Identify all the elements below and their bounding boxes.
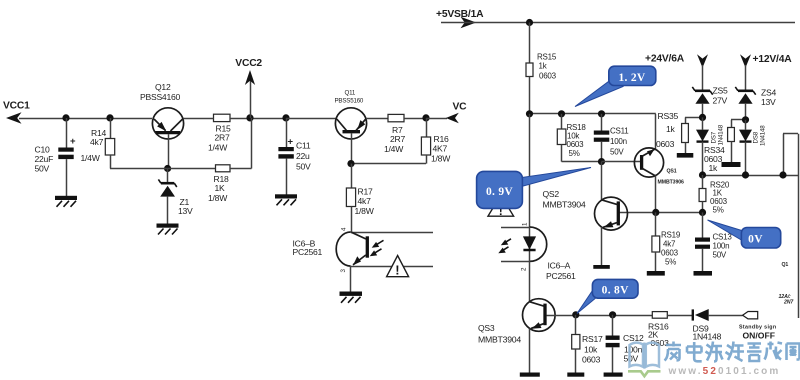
- svg-text:4K7: 4K7: [433, 143, 448, 153]
- node ZS4/DS8: [742, 116, 749, 123]
- svg-text:CS13: CS13: [713, 233, 733, 242]
- svg-text:1N4148: 1N4148: [693, 332, 722, 342]
- wire +5VSB rail: [441, 22, 795, 24]
- svg-text:CS11: CS11: [610, 127, 629, 136]
- svg-text:1. 2V: 1. 2V: [618, 72, 645, 84]
- wire from Q1 drain: [783, 134, 799, 319]
- net entry +12V/4A: [740, 54, 792, 90]
- svg-text:1/4W: 1/4W: [384, 144, 404, 154]
- svg-text:RS17: RS17: [582, 334, 603, 344]
- connector Standby sign ON/OFF: [739, 312, 776, 341]
- svg-text:!: !: [395, 263, 399, 278]
- svg-text:MMBT3904: MMBT3904: [478, 335, 521, 345]
- svg-text:1/4W: 1/4W: [208, 143, 228, 153]
- node bus DS8: [742, 171, 749, 178]
- svg-text:IC6–A: IC6–A: [548, 261, 571, 271]
- capacitor C10: [35, 118, 77, 196]
- ground (C11): [275, 194, 297, 205]
- svg-text:50V: 50V: [35, 164, 50, 174]
- node bus RS15: [526, 110, 533, 117]
- node QS1 collector / RS19: [652, 209, 659, 216]
- transistor QS3 MMBT3904: [478, 299, 555, 373]
- wire RS15 node down to IC6-A: [529, 114, 531, 227]
- resistor R16: [351, 118, 451, 164]
- svg-text:RS35: RS35: [658, 111, 679, 121]
- resistor R17: [346, 164, 374, 232]
- ground bar (RS19): [647, 271, 665, 276]
- node Q11 base junction: [347, 160, 354, 167]
- node 0V (RS20/CS13): [699, 209, 706, 216]
- ground (C10): [55, 196, 77, 207]
- transistor Q11 PBSS5160: [335, 90, 367, 164]
- resistor RS19: [652, 212, 681, 271]
- svg-text:0. 9V: 0. 9V: [486, 186, 513, 198]
- resistor RS34: [704, 120, 746, 174]
- svg-text:1k: 1k: [666, 124, 676, 134]
- svg-text:27V: 27V: [713, 96, 728, 106]
- svg-text:ON/OFF: ON/OFF: [743, 331, 775, 341]
- capacitor CS11: [594, 114, 629, 162]
- ground (IC6-B pin3): [340, 292, 363, 303]
- svg-text:+5VSB/1A: +5VSB/1A: [436, 9, 484, 20]
- diode DS8 1N4148: [739, 120, 766, 175]
- svg-text:0603: 0603: [539, 72, 557, 81]
- resistor RS17: [572, 315, 603, 373]
- wire R14 to Q12 base: [110, 168, 216, 170]
- svg-text:CS12: CS12: [623, 333, 644, 343]
- wire 1.2V bus: [530, 113, 656, 115]
- svg-text:100n: 100n: [610, 137, 627, 146]
- svg-text:1/8W: 1/8W: [208, 193, 228, 203]
- wire QS2 base line: [620, 212, 703, 214]
- svg-text:VCC1: VCC1: [3, 101, 30, 112]
- resistor R15: [183, 114, 286, 153]
- svg-text:VCC2: VCC2: [235, 58, 262, 69]
- zener Z1 13V: [158, 169, 193, 224]
- node RS17: [572, 311, 579, 318]
- node 0.9V: [598, 158, 605, 165]
- svg-text:0603: 0603: [582, 355, 601, 365]
- svg-text:+12V/4A: +12V/4A: [753, 54, 793, 65]
- svg-text:2R7: 2R7: [215, 132, 230, 142]
- svg-text:QS1: QS1: [667, 169, 677, 175]
- transistor QS1 MMBT3906: [634, 148, 684, 213]
- svg-text:50V: 50V: [713, 251, 727, 260]
- wire VCC1 rail: [19, 118, 152, 120]
- svg-text:1k: 1k: [709, 163, 719, 173]
- svg-text:50V: 50V: [296, 162, 311, 172]
- resistor R7: [366, 114, 426, 154]
- svg-text:PC2561: PC2561: [546, 271, 576, 281]
- svg-text:RS15: RS15: [537, 53, 557, 62]
- svg-text:1/4W: 1/4W: [81, 153, 101, 163]
- svg-text:C10: C10: [35, 145, 50, 155]
- svg-text:50V: 50V: [624, 354, 639, 364]
- wire node to QS1 base: [602, 161, 641, 163]
- callout 1.2V: [575, 66, 656, 106]
- svg-text:1k: 1k: [539, 62, 548, 71]
- svg-text:1N4148: 1N4148: [759, 125, 766, 146]
- node bus Q1: [779, 171, 786, 178]
- transistor QS2 MMBT3904: [543, 189, 628, 265]
- svg-text:+: +: [70, 136, 76, 147]
- ground bar (QS2): [593, 265, 610, 269]
- resistor RS18: [557, 114, 586, 162]
- warning triangle (IC6-B): [387, 256, 409, 278]
- svg-text:5%: 5%: [569, 149, 580, 158]
- svg-text:Q11: Q11: [345, 90, 356, 97]
- svg-text:MMBT3906: MMBT3906: [658, 180, 685, 186]
- node VCC2 junction: [246, 114, 253, 121]
- watermark text (stylized): [665, 342, 800, 362]
- diode DS9 1N4148: [693, 309, 743, 342]
- ground bar (CS12): [604, 373, 623, 377]
- svg-text:0603: 0603: [567, 140, 585, 149]
- svg-text:13V: 13V: [761, 97, 776, 107]
- ground bar (RS17): [567, 373, 584, 377]
- svg-text:C11: C11: [296, 141, 311, 151]
- watermark book icon: [628, 343, 661, 377]
- warning triangle (IC6-A, behind callout): [488, 195, 514, 218]
- svg-text:Q12: Q12: [155, 82, 171, 92]
- svg-text:0V: 0V: [748, 234, 763, 246]
- svg-text:1K: 1K: [215, 183, 226, 193]
- zener ZS4 13V: [735, 87, 776, 120]
- svg-text:ZS5: ZS5: [713, 86, 728, 96]
- svg-text:PC2561: PC2561: [293, 247, 323, 257]
- svg-text:RS19: RS19: [661, 231, 681, 240]
- svg-text:Q1: Q1: [782, 262, 789, 268]
- ground bar (RS34): [722, 162, 741, 167]
- callout 0.8V: [577, 279, 638, 313]
- svg-text:VC: VC: [453, 102, 468, 113]
- svg-text:13V: 13V: [178, 206, 193, 216]
- resistor RS16: [648, 312, 694, 348]
- svg-text:22u: 22u: [296, 151, 310, 161]
- svg-text:+: +: [288, 137, 294, 148]
- svg-text:0603: 0603: [656, 139, 675, 149]
- callout 0V: [708, 220, 781, 248]
- net label VC: [426, 102, 467, 124]
- resistor RS35: [656, 111, 703, 153]
- svg-text:0603: 0603: [661, 249, 679, 258]
- svg-text:4k7: 4k7: [663, 240, 676, 249]
- svg-text:MMBT3904: MMBT3904: [543, 200, 586, 210]
- node bus DS7: [699, 171, 706, 178]
- svg-text:50V: 50V: [610, 147, 624, 156]
- net label VCC2: [235, 58, 262, 118]
- transistor Q12 PBSS4160: [140, 82, 184, 169]
- svg-text:PBSS4160: PBSS4160: [140, 92, 181, 102]
- svg-text:www.520101.com: www.520101.com: [668, 366, 781, 377]
- node CS12: [609, 311, 616, 318]
- node RS15 top: [526, 19, 533, 26]
- svg-text:5%: 5%: [665, 258, 676, 267]
- optocoupler IC6-A PC2561 (LED): [498, 222, 576, 302]
- wire node down to QS2 collector: [601, 162, 603, 200]
- node R14 junction: [106, 114, 113, 121]
- resistor RS15: [526, 23, 557, 114]
- resistor R18: [208, 118, 252, 203]
- svg-text:4k7: 4k7: [90, 137, 104, 147]
- svg-text:10k: 10k: [584, 345, 598, 355]
- svg-text:5%: 5%: [713, 206, 724, 215]
- svg-text:1/8W: 1/8W: [355, 206, 375, 216]
- node C10 junction: [62, 114, 69, 121]
- label 12A / 2N7 fragment: [779, 294, 795, 306]
- resistor R14: [81, 118, 115, 169]
- callout 0.9V: [477, 168, 591, 209]
- svg-text:QS2: QS2: [543, 189, 560, 199]
- capacitor CS13: [695, 212, 732, 271]
- optocoupler IC6-B PC2561 (phototransistor): [293, 227, 434, 292]
- ground (Z1): [157, 224, 179, 235]
- wire RS18 bottom to node: [562, 161, 602, 163]
- svg-text:PBSS5160: PBSS5160: [335, 98, 364, 105]
- node Q12 base junction: [164, 165, 171, 172]
- ground bar (RS35): [677, 153, 694, 158]
- resistor RS20: [699, 175, 730, 215]
- svg-text:1N4148: 1N4148: [717, 124, 724, 145]
- svg-text:2N7: 2N7: [783, 300, 794, 306]
- net label VCC1: [3, 101, 30, 124]
- svg-text:4k7: 4k7: [358, 196, 372, 206]
- svg-text:1/8W: 1/8W: [431, 153, 451, 163]
- node VC junction: [422, 114, 429, 121]
- wire lower bus: [703, 175, 800, 177]
- svg-text:100n: 100n: [713, 242, 730, 251]
- svg-text:2R7: 2R7: [390, 134, 405, 144]
- node bus RS18: [558, 110, 565, 117]
- zener ZS5 27V: [692, 86, 728, 118]
- node bus CS11: [598, 110, 605, 117]
- net label +5VSB/1A: [436, 9, 484, 28]
- wire standby line: [547, 315, 653, 317]
- svg-text:+24V/6A: +24V/6A: [645, 54, 685, 65]
- node ZS5/DS7: [699, 114, 706, 121]
- net entry +24V/6A: [645, 54, 708, 91]
- diode DS7 1N4148: [696, 117, 724, 175]
- wire bus down to QS1 emitter: [655, 114, 657, 149]
- capacitor C11: [278, 114, 336, 194]
- ground bar (CS13): [694, 271, 713, 276]
- svg-text:22uF: 22uF: [35, 154, 54, 164]
- svg-text:QS3: QS3: [478, 323, 495, 333]
- capacitor CS12: [606, 315, 644, 373]
- ground bar (QS3): [520, 373, 540, 377]
- svg-text:0. 8V: 0. 8V: [602, 285, 629, 297]
